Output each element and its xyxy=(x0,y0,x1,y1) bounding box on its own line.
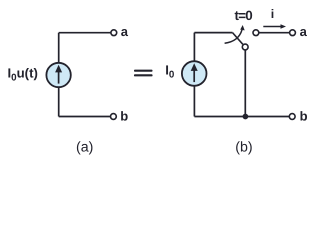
terminal a (a) xyxy=(111,30,117,36)
switch actuation arrow xyxy=(225,25,245,43)
svg-text:I0u(t): I0u(t) xyxy=(8,65,38,83)
svg-text:b: b xyxy=(300,109,308,124)
svg-text:(a): (a) xyxy=(76,140,93,156)
label i xyxy=(271,7,274,21)
svg-text:t=0: t=0 xyxy=(235,8,253,23)
label b (a) xyxy=(120,109,128,124)
label I0 xyxy=(165,62,175,80)
svg-text:b: b xyxy=(120,109,128,124)
switch contact (throw to a) xyxy=(253,30,259,36)
terminal b (a) xyxy=(111,114,117,120)
wire bottom (a) xyxy=(59,116,111,118)
label a (a) xyxy=(121,24,129,39)
wire top (b) xyxy=(194,32,232,34)
terminal b (b) xyxy=(289,114,295,120)
svg-text:a: a xyxy=(300,24,308,39)
wire left branch (b) xyxy=(193,33,195,117)
switch blade xyxy=(233,33,243,45)
wire left branch (a) xyxy=(58,33,60,117)
wire top (a) xyxy=(59,32,111,34)
svg-text:I0: I0 xyxy=(165,62,175,80)
switch contact (pole) xyxy=(242,44,248,50)
wire bottom (b) xyxy=(194,116,289,118)
svg-text:i: i xyxy=(271,7,274,21)
current source I0u(t) xyxy=(46,63,70,87)
equals sign xyxy=(134,70,153,77)
current source I0 xyxy=(182,61,207,86)
label t=0 xyxy=(235,8,253,23)
wire to terminal a (b) xyxy=(259,32,289,34)
wire switch branch vertical (b) xyxy=(244,50,246,116)
svg-text:(b): (b) xyxy=(235,140,252,156)
terminal a (b) xyxy=(290,30,296,36)
caption (b) xyxy=(235,140,252,156)
junction dot xyxy=(243,114,249,120)
label I0u(t) xyxy=(8,65,38,83)
label a (b) xyxy=(300,24,308,39)
current arrow i xyxy=(263,24,286,28)
svg-text:a: a xyxy=(121,24,129,39)
caption (a) xyxy=(76,140,93,156)
label b (b) xyxy=(300,109,308,124)
